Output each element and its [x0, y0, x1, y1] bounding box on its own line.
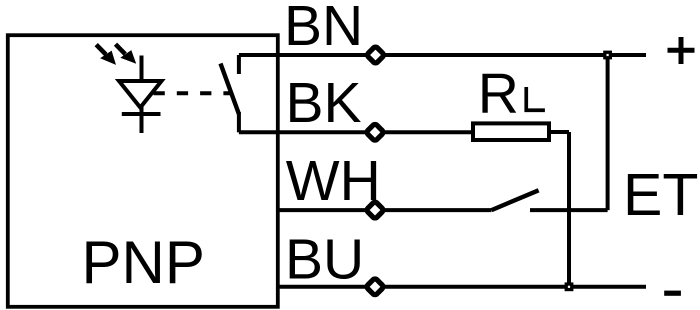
dashed coupling line	[154, 91, 231, 95]
wire WH	[278, 208, 492, 212]
rail from RL down to BU junction	[567, 132, 571, 287]
junction node at BN/rail	[603, 51, 612, 60]
light arrow shaft 2	[116, 44, 126, 54]
svg-text:BU: BU	[285, 228, 364, 292]
connector diamond BU	[366, 278, 384, 296]
rail from plus junction to ET switch	[606, 55, 610, 210]
photodiode D1 triangle	[119, 81, 162, 108]
junction node at BU/rail	[565, 282, 574, 291]
wire BK	[239, 130, 473, 134]
svg-text:ET: ET	[623, 162, 698, 228]
output switch S1 bottom lead	[237, 112, 241, 132]
minus terminal	[664, 291, 681, 296]
output switch S1 blade	[221, 64, 239, 115]
light arrow head 2	[120, 50, 136, 64]
svg-text:PNP: PNP	[82, 229, 205, 296]
plus terminal	[668, 37, 695, 64]
svg-text:WH: WH	[286, 149, 381, 213]
light arrow head 1	[100, 51, 116, 65]
wire RL to rail	[549, 130, 569, 134]
switch ET fixed contact wire	[530, 208, 608, 212]
connector diamond WH	[366, 201, 384, 219]
photodiode D1 cathode bar	[122, 112, 161, 116]
svg-text:BK: BK	[286, 71, 362, 135]
photodiode D1 cathode lead	[140, 56, 144, 134]
wire BU	[278, 285, 646, 289]
light arrow shaft 1	[96, 45, 106, 55]
sensor box U1	[8, 35, 278, 307]
svg-text:R: R	[478, 62, 519, 126]
connector diamond BN	[366, 46, 384, 64]
connector diamond BK	[366, 123, 384, 141]
switch ET blade	[492, 190, 539, 210]
svg-text:BN: BN	[284, 0, 363, 58]
resistor RL body	[473, 123, 549, 140]
wire BN	[239, 53, 646, 57]
output switch S1 top stub	[237, 55, 241, 74]
